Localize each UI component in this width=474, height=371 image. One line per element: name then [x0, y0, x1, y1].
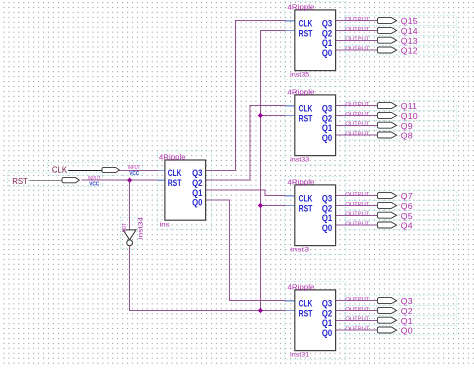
svg-text:Q5: Q5 [401, 211, 413, 221]
svg-text:RST: RST [12, 177, 28, 186]
svg-text:CLK: CLK [168, 168, 182, 178]
svg-text:OUTPUT: OUTPUT [345, 122, 369, 128]
svg-text:CLK: CLK [52, 166, 68, 175]
svg-text:Q8: Q8 [401, 131, 413, 141]
svg-text:Q0: Q0 [401, 326, 413, 336]
svg-text:OUTPUT: OUTPUT [345, 27, 369, 33]
svg-text:Q11: Q11 [401, 101, 417, 111]
svg-text:OUTPUT: OUTPUT [345, 47, 369, 53]
svg-text:Q2: Q2 [401, 306, 413, 316]
svg-text:inst31: inst31 [290, 352, 310, 359]
svg-text:inst35: inst35 [290, 72, 310, 79]
svg-text:inst3: inst3 [290, 247, 310, 254]
svg-text:NOT: NOT [122, 222, 128, 232]
svg-text:inst33: inst33 [290, 157, 310, 164]
svg-text:Q13: Q13 [401, 36, 418, 46]
svg-text:Q0: Q0 [322, 133, 332, 143]
svg-text:OUTPUT: OUTPUT [345, 297, 369, 303]
svg-text:OUTPUT: OUTPUT [345, 327, 369, 333]
svg-text:CLK: CLK [299, 19, 313, 29]
svg-text:Q0: Q0 [322, 48, 332, 58]
svg-text:OUTPUT: OUTPUT [345, 112, 369, 118]
svg-text:Q1: Q1 [322, 38, 332, 48]
svg-text:Q10: Q10 [401, 111, 418, 121]
svg-text:OUTPUT: OUTPUT [345, 37, 369, 43]
svg-text:Q4: Q4 [401, 221, 413, 231]
svg-text:Q3: Q3 [322, 299, 332, 309]
svg-text:Q3: Q3 [401, 296, 413, 306]
svg-text:4Ripple: 4Ripple [287, 177, 314, 186]
svg-text:Q1: Q1 [192, 188, 202, 198]
svg-text:CLK: CLK [299, 104, 313, 114]
svg-text:Q3: Q3 [322, 104, 332, 114]
svg-text:4Ripple: 4Ripple [287, 282, 314, 291]
svg-text:INPUT: INPUT [128, 165, 141, 171]
svg-text:Q7: Q7 [401, 191, 413, 201]
svg-text:VCC: VCC [89, 182, 100, 188]
svg-text:VCC: VCC [129, 171, 140, 177]
svg-text:4Ripple: 4Ripple [287, 87, 314, 96]
svg-text:OUTPUT: OUTPUT [345, 222, 369, 228]
svg-text:Q0: Q0 [192, 198, 202, 208]
svg-text:OUTPUT: OUTPUT [345, 17, 369, 23]
svg-text:4Ripple: 4Ripple [159, 152, 186, 161]
svg-text:OUTPUT: OUTPUT [345, 202, 369, 208]
svg-text:Q2: Q2 [322, 28, 332, 38]
svg-text:Q0: Q0 [322, 328, 332, 338]
svg-text:CLK: CLK [299, 194, 313, 204]
svg-text:Q0: Q0 [322, 223, 332, 233]
svg-text:4Ripple: 4Ripple [287, 2, 314, 11]
svg-text:CLK: CLK [299, 299, 313, 309]
svg-text:RST: RST [168, 178, 182, 188]
svg-text:OUTPUT: OUTPUT [345, 192, 369, 198]
svg-text:Q2: Q2 [192, 178, 202, 188]
svg-text:Q1: Q1 [322, 213, 332, 223]
svg-text:OUTPUT: OUTPUT [345, 317, 369, 323]
svg-text:Q2: Q2 [322, 308, 332, 318]
svg-text:OUTPUT: OUTPUT [345, 132, 369, 138]
svg-text:Q2: Q2 [322, 113, 332, 123]
svg-text:Q12: Q12 [401, 46, 418, 56]
svg-text:ins: ins [160, 222, 170, 229]
svg-text:inst34: inst34 [137, 216, 144, 239]
svg-text:RST: RST [299, 308, 313, 318]
svg-text:Q3: Q3 [192, 168, 202, 178]
svg-text:RST: RST [299, 113, 313, 123]
svg-text:RST: RST [299, 203, 313, 213]
svg-text:Q14: Q14 [401, 26, 418, 36]
svg-text:RST: RST [299, 28, 313, 38]
svg-text:Q1: Q1 [322, 318, 332, 328]
svg-text:OUTPUT: OUTPUT [345, 212, 369, 218]
svg-text:Q3: Q3 [322, 19, 332, 29]
svg-text:Q1: Q1 [322, 123, 332, 133]
svg-text:Q3: Q3 [322, 194, 332, 204]
svg-text:Q1: Q1 [401, 316, 413, 326]
svg-text:Q2: Q2 [322, 203, 332, 213]
svg-text:Q9: Q9 [401, 121, 413, 131]
svg-text:OUTPUT: OUTPUT [345, 102, 369, 108]
svg-text:Q6: Q6 [401, 201, 413, 211]
svg-text:Q15: Q15 [401, 16, 418, 26]
svg-text:OUTPUT: OUTPUT [345, 307, 369, 313]
